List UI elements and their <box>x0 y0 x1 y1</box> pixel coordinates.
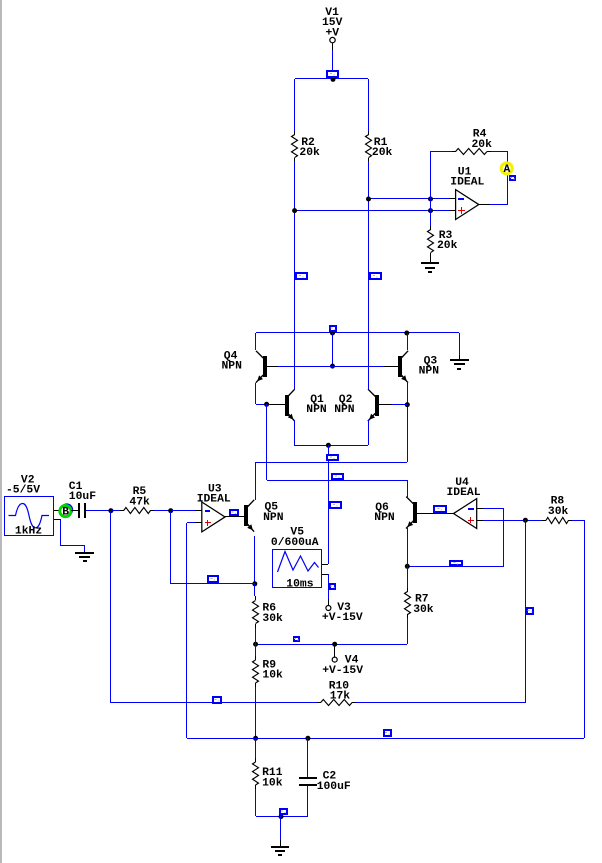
svg-text:IDEAL: IDEAL <box>447 487 481 499</box>
svg-text:20k: 20k <box>472 139 493 151</box>
svg-text:20k: 20k <box>299 147 320 159</box>
svg-text:+V: +V <box>326 27 340 39</box>
svg-text:NPN: NPN <box>263 512 284 524</box>
svg-text:20k: 20k <box>437 240 458 252</box>
svg-text:47k: 47k <box>129 496 150 508</box>
svg-text:17k: 17k <box>330 691 351 703</box>
svg-text:10uF: 10uF <box>69 491 96 503</box>
svg-text:20k: 20k <box>372 147 393 159</box>
svg-text:30k: 30k <box>262 613 283 625</box>
svg-text:0/600uA: 0/600uA <box>271 537 319 549</box>
svg-text:NPN: NPN <box>334 404 355 416</box>
svg-text:-5/5V: -5/5V <box>6 485 40 497</box>
svg-text:+V-15V: +V-15V <box>322 665 363 677</box>
svg-text:NPN: NPN <box>222 361 243 373</box>
svg-text:1kHz: 1kHz <box>15 525 42 537</box>
svg-text:NPN: NPN <box>419 366 440 378</box>
svg-text:NPN: NPN <box>306 404 327 416</box>
svg-text:NPN: NPN <box>374 512 395 524</box>
svg-text:A: A <box>504 164 511 176</box>
svg-text:10k: 10k <box>262 777 283 789</box>
svg-text:10k: 10k <box>262 670 283 682</box>
svg-text:10ms: 10ms <box>286 579 313 591</box>
svg-text:B: B <box>62 506 69 518</box>
svg-text:+V-15V: +V-15V <box>322 612 363 624</box>
svg-text:IDEAL: IDEAL <box>197 494 231 506</box>
svg-text:100uF: 100uF <box>317 781 351 793</box>
svg-text:30k: 30k <box>548 506 569 518</box>
svg-text:30k: 30k <box>413 604 434 616</box>
svg-text:IDEAL: IDEAL <box>450 177 484 189</box>
